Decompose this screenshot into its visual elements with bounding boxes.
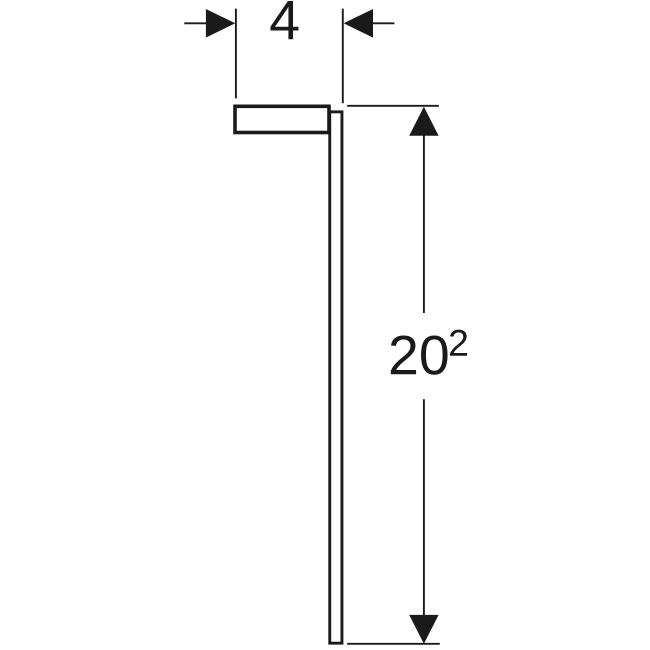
vertical dim line lower segment [423,399,425,617]
bottom horizontal extension line (height dim) [347,643,440,645]
label superscript 2 [450,330,467,356]
label 20 [391,335,448,374]
extension line right (width dim) [342,9,344,104]
top bar (horizontal profile section) [235,106,329,132]
right dim arrow tail [373,22,395,24]
extension line left (width dim) [235,9,237,99]
vertical bar (tall profile section) [330,112,342,643]
left dim arrowhead [206,9,235,38]
vertical dim line upper segment [423,133,425,313]
top horizontal extension line (height dim) [347,105,439,107]
right dim arrowhead [344,9,373,38]
vertical dim up arrowhead [409,107,438,136]
label 4 [270,1,298,39]
left dim arrow tail [184,22,207,24]
vertical dim down arrowhead [409,615,438,644]
